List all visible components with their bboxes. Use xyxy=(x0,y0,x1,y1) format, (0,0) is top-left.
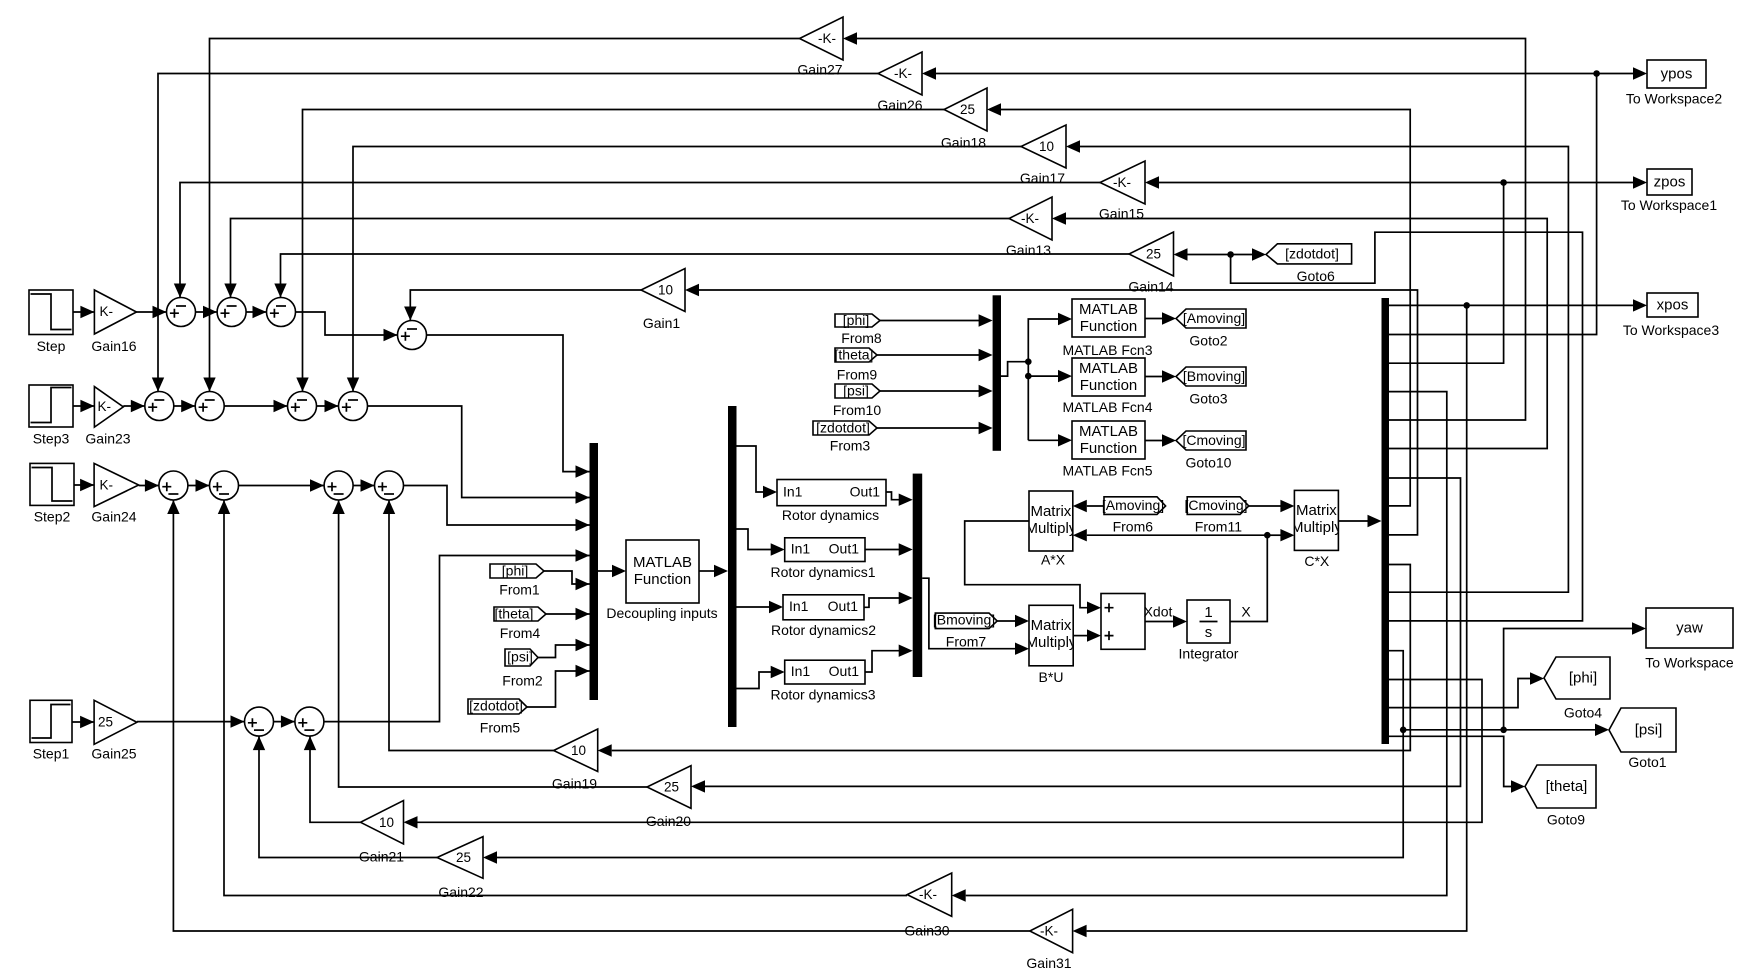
wire Gain20 output to Sum row3-3 bottom xyxy=(332,500,647,787)
sum Sum row1-4 xyxy=(398,321,427,350)
svg-text:X: X xyxy=(1241,604,1251,620)
wire Gain24 to Sum row3-1 xyxy=(139,479,159,491)
svg-text:Gain16: Gain16 xyxy=(91,338,136,354)
wire Demux2 stub9 down to Gain19 input xyxy=(598,565,1411,757)
step source Step xyxy=(29,290,73,354)
sum Sum row2-1 xyxy=(145,392,174,421)
from tag From3 zdotdot xyxy=(813,420,877,454)
svg-text:From4: From4 xyxy=(500,625,541,641)
sum Sum row3-1 xyxy=(159,471,188,500)
svg-text:Gain13: Gain13 xyxy=(1006,242,1051,258)
block MATLAB Fcn3 xyxy=(1063,299,1153,358)
step source Step1 xyxy=(30,700,72,761)
svg-text:Gain24: Gain24 xyxy=(91,509,136,525)
svg-text:In1: In1 xyxy=(791,663,811,679)
wire Gain1 output to Sum row1-4 top xyxy=(404,290,641,321)
wire Demux2 stub12 psi chain down xyxy=(483,651,1403,864)
wire From9 theta to Mux3 xyxy=(877,349,993,361)
from tag From7 Bmoving xyxy=(933,612,997,650)
svg-text:Rotor dynamics: Rotor dynamics xyxy=(782,507,879,523)
svg-text:Gain20: Gain20 xyxy=(646,813,691,829)
svg-text:Gain31: Gain31 xyxy=(1026,955,1071,968)
svg-text:[Bmoving]: [Bmoving] xyxy=(1183,368,1245,384)
svg-text:From1: From1 xyxy=(499,582,540,598)
svg-text:[psi]: [psi] xyxy=(843,383,869,399)
svg-text:In1: In1 xyxy=(791,541,811,557)
wire From10 psi to Mux3 xyxy=(880,385,993,397)
wire ypos node to ypos To Workspace2 xyxy=(1597,67,1647,79)
svg-text:Goto2: Goto2 xyxy=(1189,333,1227,349)
svg-text:Function: Function xyxy=(634,571,692,588)
subsystem Rotor dynamics2 xyxy=(771,595,876,638)
sum Sum row2-2 xyxy=(195,392,224,421)
gain Gain27 xyxy=(797,17,843,78)
svg-text:Goto1: Goto1 xyxy=(1628,754,1666,770)
goto tag Goto2 Amoving xyxy=(1176,309,1246,349)
wire Sum row4-1 to Sum row4-2 xyxy=(274,715,295,727)
wire Gain14 output to Sum row1-3 top xyxy=(274,254,1129,298)
svg-text:To Workspace3: To Workspace3 xyxy=(1623,322,1719,338)
wire Demux1 out4 to Rotor dynamics3 In1 xyxy=(737,666,785,689)
svg-text:MATLAB Fcn4: MATLAB Fcn4 xyxy=(1063,399,1153,415)
wire Gain21 output to Sum row4-2 bottom xyxy=(304,736,361,822)
svg-text:[Bmoving]: [Bmoving] xyxy=(933,612,995,628)
svg-text:Function: Function xyxy=(1080,377,1138,394)
wire Mux3 output jog to MATLAB Fcn inputs xyxy=(1001,313,1072,447)
svg-text:Multiply: Multiply xyxy=(1291,519,1342,536)
wire C*X output to Demux2 input xyxy=(1338,515,1381,527)
wire Gain31 output to Sum row3-1 bottom xyxy=(167,500,1030,931)
node X branch dot xyxy=(1264,532,1271,539)
svg-text:Gain21: Gain21 xyxy=(359,849,404,865)
block MATLAB Fcn4 xyxy=(1063,358,1153,415)
wire Demux2 stub7 up to Gain18 input xyxy=(987,103,1410,506)
svg-text:Gain25: Gain25 xyxy=(91,746,136,762)
node yaw branch dot xyxy=(1500,727,1507,734)
node psi branch dot xyxy=(1400,727,1407,734)
svg-text:Multiply: Multiply xyxy=(1026,634,1077,651)
wire Mux2 to B*U lower input xyxy=(922,578,1029,655)
svg-text:In1: In1 xyxy=(783,484,803,500)
svg-text:25: 25 xyxy=(960,102,975,117)
svg-text:From9: From9 xyxy=(837,367,878,383)
svg-text:MATLAB: MATLAB xyxy=(1079,423,1138,440)
node xpos branch dot xyxy=(1463,302,1470,309)
gain Gain19 xyxy=(552,729,598,792)
wire Rotor dynamics2 Out1 to Mux2 xyxy=(864,592,913,608)
wire MATLAB Fcn5 to Goto10 xyxy=(1145,434,1176,446)
wire Demux2 stub8 up to Gain1 input xyxy=(685,284,1418,535)
mux Mux2 xyxy=(913,474,923,677)
gain Gain16 xyxy=(91,290,136,354)
svg-text:Goto9: Goto9 xyxy=(1547,812,1585,828)
svg-text:-K-: -K- xyxy=(1021,211,1039,226)
svg-text:-K-: -K- xyxy=(818,31,836,46)
node zdotdot branch dot xyxy=(1227,251,1234,258)
wire Step1 to Gain25 xyxy=(72,716,94,728)
svg-text:MATLAB: MATLAB xyxy=(1079,301,1138,318)
svg-text:Goto6: Goto6 xyxy=(1297,268,1335,284)
gain Gain26 xyxy=(877,52,922,113)
block A*X Matrix Multiply xyxy=(1025,491,1076,568)
wire Sum row2-2 to Sum row2-3 xyxy=(224,400,287,412)
block Decoupling inputs MATLAB Function xyxy=(606,540,717,621)
svg-text:Step: Step xyxy=(37,338,66,354)
gain Gain17 xyxy=(1020,125,1066,186)
svg-text:Decoupling inputs: Decoupling inputs xyxy=(606,605,717,621)
goto tag Goto1 psi xyxy=(1609,708,1676,770)
wire From11 Cmoving to C*X upper input xyxy=(1249,500,1295,512)
svg-text:s: s xyxy=(1205,624,1213,641)
svg-text:To Workspace1: To Workspace1 xyxy=(1621,197,1717,213)
wire From5 zdotdot to Mux1 input8 xyxy=(527,665,590,707)
svg-text:25: 25 xyxy=(664,780,679,795)
mux Mux1 xyxy=(590,443,599,700)
wire Sum row2-1 to Sum row2-2 xyxy=(174,400,195,412)
svg-text:B*U: B*U xyxy=(1039,669,1064,685)
svg-text:MATLAB: MATLAB xyxy=(1079,360,1138,377)
svg-text:From6: From6 xyxy=(1113,519,1154,535)
wire Gain13 output to Sum row1-2 top xyxy=(224,219,1009,298)
from tag From2 psi xyxy=(502,649,543,689)
wire Demux2 stub13 down to Gain21 input xyxy=(404,680,1483,829)
svg-text:Gain26: Gain26 xyxy=(877,97,922,113)
svg-text:ypos: ypos xyxy=(1661,66,1693,83)
wire ypos node to Gain26 input xyxy=(922,67,1597,79)
to workspace yaw To Workspace xyxy=(1645,608,1734,671)
svg-text:zpos: zpos xyxy=(1654,174,1686,191)
svg-text:Xdot: Xdot xyxy=(1144,604,1173,620)
svg-text:[psi]: [psi] xyxy=(1635,722,1663,739)
gain Gain25 xyxy=(91,700,136,761)
wire Sum row3-3 to Sum row3-4 xyxy=(353,479,374,491)
gain Gain24 xyxy=(91,463,138,524)
block C*X Matrix Multiply xyxy=(1291,490,1342,569)
wire B*U to Sum block lower input xyxy=(1073,629,1101,641)
svg-text:yaw: yaw xyxy=(1676,620,1703,637)
wire Gain17 output to Sum row2-4 top xyxy=(347,147,1021,392)
wire Gain22 output to Sum row4-1 bottom xyxy=(253,736,437,857)
svg-text:C*X: C*X xyxy=(1304,553,1330,569)
wire psi node to Goto1 xyxy=(1403,724,1609,736)
gain Gain21 xyxy=(359,801,404,865)
from tag From4 theta xyxy=(494,606,546,642)
svg-text:From11: From11 xyxy=(1195,519,1242,535)
svg-text:From7: From7 xyxy=(946,634,987,650)
from tag From5 zdotdot xyxy=(468,698,527,736)
from tag From1 phi xyxy=(490,563,544,598)
wire Gain25 to Sum row4-1 xyxy=(137,715,245,727)
wire Demux1 out1 to Rotor dynamics In1 xyxy=(737,446,778,498)
wire Sum row4-2 to Mux1 input4 xyxy=(324,549,590,721)
svg-text:25: 25 xyxy=(98,715,113,730)
from tag From10 psi xyxy=(833,383,881,419)
step source Step3 xyxy=(29,385,73,447)
mux Mux3 xyxy=(993,295,1001,451)
svg-text:Goto3: Goto3 xyxy=(1189,391,1227,407)
wire Sum row1-4 to Mux1 input1 xyxy=(427,335,590,478)
svg-text:-K-: -K- xyxy=(919,887,937,902)
wire zpos node to zpos To Workspace1 xyxy=(1504,176,1647,188)
wire Sum row2-3 to Sum row2-4 xyxy=(317,400,339,412)
block MATLAB Fcn5 xyxy=(1063,421,1153,479)
wire Integrator output X up to node xyxy=(1230,535,1267,621)
svg-text:Step3: Step3 xyxy=(33,431,70,447)
gain Gain22 xyxy=(437,837,484,900)
wire From7 Bmoving to B*U upper input xyxy=(997,615,1029,627)
subsystem Rotor dynamics3 xyxy=(770,660,875,702)
svg-text:Goto4: Goto4 xyxy=(1564,705,1602,721)
node ypos branch dot xyxy=(1593,70,1600,77)
svg-text:Goto10: Goto10 xyxy=(1186,455,1232,471)
wire Demux2 stub14 to Goto4 phi xyxy=(1389,672,1544,707)
svg-text:Gain17: Gain17 xyxy=(1020,170,1065,186)
svg-text:10: 10 xyxy=(658,283,673,298)
svg-text:Step1: Step1 xyxy=(33,746,70,762)
wire From4 theta to Mux1 input6 xyxy=(546,608,590,620)
wire From6 Amoving to A*X upper input xyxy=(1073,500,1104,512)
gain Gain20 xyxy=(646,766,691,829)
svg-text:[psi]: [psi] xyxy=(507,649,533,665)
svg-text:[zdotdot]: [zdotdot] xyxy=(1285,246,1339,262)
wire Rotor dynamics Out1 to Mux2 xyxy=(886,492,913,506)
node zpos branch dot xyxy=(1500,179,1507,186)
to workspace zpos To Workspace1 xyxy=(1621,169,1717,213)
sum Sum row2-3 xyxy=(288,392,317,421)
demux Demux2 xyxy=(1382,298,1390,744)
wire X node to C*X lower input xyxy=(1267,529,1294,541)
svg-text:Out1: Out1 xyxy=(850,484,881,500)
svg-text:Gain18: Gain18 xyxy=(941,135,986,151)
svg-text:[theta]: [theta] xyxy=(835,347,874,363)
svg-text:From8: From8 xyxy=(841,330,882,346)
svg-text:10: 10 xyxy=(1039,139,1054,154)
goto tag Goto6 zdotdot xyxy=(1266,244,1352,284)
svg-text:Gain27: Gain27 xyxy=(797,62,842,78)
wire zdotdot node to Goto6 xyxy=(1231,248,1266,260)
wire Gain15 output to Sum row1-1 top xyxy=(174,183,1100,298)
wire Gain26 output to Sum row2-1 top xyxy=(152,74,878,392)
svg-text:In1: In1 xyxy=(789,598,809,614)
svg-text:[Amoving]: [Amoving] xyxy=(1102,497,1164,513)
wire Sum block to Integrator (Xdot) xyxy=(1145,615,1187,627)
svg-text:MATLAB Fcn5: MATLAB Fcn5 xyxy=(1063,463,1153,479)
svg-text:Out1: Out1 xyxy=(829,541,860,557)
wire Mux1 to Decoupling MATLAB Function xyxy=(598,565,626,577)
svg-text:[theta]: [theta] xyxy=(1546,778,1588,795)
wire Gain30 output to Sum row3-2 bottom xyxy=(218,500,907,896)
svg-text:From3: From3 xyxy=(830,438,871,454)
wire A*X output to Sum block upper input xyxy=(965,521,1101,614)
svg-text:Gain23: Gain23 xyxy=(85,431,130,447)
sum Sum row1-2 xyxy=(217,298,246,327)
goto tag Goto4 phi xyxy=(1544,657,1610,721)
wire Sum row3-1 to Sum row3-2 xyxy=(188,479,210,491)
svg-text:K-: K- xyxy=(100,478,114,493)
svg-text:From10: From10 xyxy=(833,402,881,418)
wire From2 psi to Mux1 input7 xyxy=(538,639,590,658)
wire Gain19 output to Sum row3-4 bottom xyxy=(383,500,554,751)
wire Demux2 stub15 to Goto9 theta xyxy=(1389,736,1525,792)
wire Demux1 out2 to Rotor dynamics1 In1 xyxy=(737,529,785,556)
svg-text:A*X: A*X xyxy=(1041,552,1066,568)
wire Decoupling MATLAB Function to Demux1 xyxy=(699,565,728,577)
svg-text:Matrix: Matrix xyxy=(1030,503,1071,520)
wire Sum row1-2 to Sum row1-3 xyxy=(246,306,267,318)
svg-text:[Cmoving]: [Cmoving] xyxy=(1182,432,1245,448)
wire Demux2 stub3 down to Gain30 input xyxy=(952,392,1447,902)
block B*U Matrix Multiply xyxy=(1026,605,1077,685)
svg-text:To Workspace: To Workspace xyxy=(1645,655,1734,671)
goto tag Goto3 Bmoving xyxy=(1176,367,1246,407)
svg-text:Multiply: Multiply xyxy=(1025,520,1076,537)
svg-text:Rotor dynamics2: Rotor dynamics2 xyxy=(771,622,876,638)
svg-text:Gain1: Gain1 xyxy=(643,315,681,331)
svg-text:Out1: Out1 xyxy=(828,598,859,614)
wire Gain18 output to Sum row2-3 top xyxy=(296,110,944,392)
svg-text:Function: Function xyxy=(1080,440,1138,457)
gain Gain15 xyxy=(1099,161,1145,222)
wire Step3 to Gain23 xyxy=(73,400,94,412)
svg-text:1: 1 xyxy=(1204,604,1212,621)
wire Gain23 to Sum row2-1 xyxy=(123,400,145,412)
wire From8 phi to Mux3 xyxy=(880,314,993,326)
svg-text:Matrix: Matrix xyxy=(1296,502,1337,519)
svg-text:Out1: Out1 xyxy=(829,663,860,679)
svg-text:10: 10 xyxy=(379,815,394,830)
gain Gain1 xyxy=(641,269,685,332)
node Mux3 jog dot lower xyxy=(1025,373,1032,380)
svg-text:Step2: Step2 xyxy=(34,509,71,525)
step source Step2 xyxy=(30,463,74,524)
wire Sum row1-1 to Sum row1-2 xyxy=(196,306,218,318)
sum Sum row2-4 xyxy=(339,392,368,421)
from tag From8 phi xyxy=(835,312,882,346)
wire Step2 to Gain24 xyxy=(74,479,94,491)
svg-text:-K-: -K- xyxy=(1113,175,1131,190)
gain Gain13 xyxy=(1006,197,1052,258)
svg-text:25: 25 xyxy=(456,850,471,865)
wire From1 phi to Mux1 input5 xyxy=(544,571,590,590)
wire Sum row1-3 to Sum row1-4 jog xyxy=(296,312,398,341)
demux Demux1 xyxy=(728,406,737,727)
gain Gain30 xyxy=(904,873,951,939)
svg-text:[phi]: [phi] xyxy=(1569,670,1597,687)
svg-text:10: 10 xyxy=(571,743,586,758)
wire Demux2 stub5 up to Gain13 input xyxy=(1052,212,1547,448)
wire Rotor dynamics3 Out1 to Mux2 xyxy=(865,645,913,673)
wire Demux2 stub6 down to Gain20 input xyxy=(691,478,1461,793)
svg-text:[zdotdot]: [zdotdot] xyxy=(469,698,523,714)
to workspace xpos To Workspace3 xyxy=(1623,293,1719,338)
wire xpos node down to Gain31 input xyxy=(1073,305,1467,937)
wire Demux2 stub4 up to Gain27 input xyxy=(843,32,1526,420)
from tag From6 Amoving xyxy=(1102,497,1166,535)
svg-text:[Amoving]: [Amoving] xyxy=(1183,310,1245,326)
subsystem Rotor dynamics1 xyxy=(770,538,875,580)
sum Sum block rectangular xyxy=(1101,594,1145,650)
svg-text:K-: K- xyxy=(98,399,112,414)
wire Sum row2-4 to Mux1 input2 xyxy=(368,406,590,504)
svg-text:-K-: -K- xyxy=(894,66,912,81)
svg-text:Gain14: Gain14 xyxy=(1128,279,1173,295)
svg-text:Rotor dynamics3: Rotor dynamics3 xyxy=(770,687,875,703)
svg-text:xpos: xpos xyxy=(1657,297,1689,314)
gain Gain31 xyxy=(1026,909,1072,968)
wire Gain27 output to Sum row2-2 top xyxy=(203,39,799,392)
wire Demux2 stub1 up to ypos line xyxy=(1389,74,1597,335)
block Integrator xyxy=(1179,600,1239,662)
wire Demux2 stub10 up to Gain17 input xyxy=(1066,140,1568,592)
goto tag Goto9 theta xyxy=(1525,765,1596,828)
from tag From11 Cmoving xyxy=(1184,497,1248,535)
wire Gain16 to Sum row1-1 xyxy=(137,306,167,318)
subsystem Rotor dynamics xyxy=(777,480,886,524)
wire Rotor dynamics1 Out1 to Mux2 xyxy=(865,543,913,555)
gain Gain18 xyxy=(941,88,987,151)
svg-text:Gain15: Gain15 xyxy=(1099,206,1144,222)
wire Demux2 stub2 up to zpos line xyxy=(1389,183,1504,364)
svg-text:[phi]: [phi] xyxy=(843,312,869,328)
svg-text:MATLAB: MATLAB xyxy=(633,554,692,571)
wire MATLAB Fcn3 to Goto2 xyxy=(1145,312,1176,324)
gain Gain23 xyxy=(85,387,130,447)
sum Sum row3-2 xyxy=(210,471,239,500)
svg-text:Rotor dynamics1: Rotor dynamics1 xyxy=(770,564,875,580)
wire Demux2 stub0 to xpos To Workspace3 xyxy=(1389,299,1647,311)
wire Demux1 out3 to Rotor dynamics2 In1 xyxy=(737,601,784,613)
svg-text:Function: Function xyxy=(1080,318,1138,335)
wire zpos node to Gain15 input xyxy=(1145,176,1504,188)
svg-text:Matrix: Matrix xyxy=(1031,617,1072,634)
svg-text:To Workspace2: To Workspace2 xyxy=(1626,91,1722,107)
wire Sum row3-4 to Mux1 input3 xyxy=(404,486,590,532)
svg-text:[Cmoving]: [Cmoving] xyxy=(1184,497,1247,513)
svg-text:[theta]: [theta] xyxy=(495,606,534,622)
wire Step to Gain16 xyxy=(73,306,94,318)
svg-text:Gain22: Gain22 xyxy=(438,884,483,900)
wire MATLAB Fcn4 to Goto3 xyxy=(1145,370,1176,382)
svg-text:Integrator: Integrator xyxy=(1179,646,1239,662)
svg-text:Gain30: Gain30 xyxy=(904,923,949,939)
svg-text:From5: From5 xyxy=(480,720,521,736)
sum Sum row1-1 xyxy=(167,298,196,327)
sum Sum row3-4 xyxy=(375,471,404,500)
wire yaw node up to yaw To Workspace xyxy=(1504,622,1646,730)
gain Gain14 xyxy=(1128,232,1173,295)
sum Sum row3-3 xyxy=(324,471,353,500)
svg-text:From2: From2 xyxy=(502,673,543,689)
sum Sum row4-1 xyxy=(245,707,274,736)
goto tag Goto10 Cmoving xyxy=(1176,431,1246,471)
wire zdotdot node to Gain14 input xyxy=(1174,248,1231,260)
svg-text:K-: K- xyxy=(100,304,114,319)
wire Sum row3-2 to Sum row3-3 xyxy=(239,479,325,491)
svg-text:[phi]: [phi] xyxy=(502,563,528,579)
to workspace ypos To Workspace2 xyxy=(1626,60,1722,107)
wire X node to A*X lower input xyxy=(1073,529,1268,541)
wire Demux2 stub11 zdotdot chain to Gain14 and Goto6 xyxy=(1231,232,1583,621)
sum Sum row4-2 xyxy=(295,707,324,736)
svg-text:-K-: -K- xyxy=(1040,924,1058,939)
node Mux3 jog dot upper xyxy=(1025,358,1032,365)
svg-text:MATLAB Fcn3: MATLAB Fcn3 xyxy=(1063,342,1153,358)
sum Sum row1-3 xyxy=(267,298,296,327)
wire From3 zdotdot to Mux3 xyxy=(877,422,993,434)
svg-text:[zdotdot]: [zdotdot] xyxy=(816,420,870,436)
svg-text:25: 25 xyxy=(1146,247,1161,262)
from tag From9 theta xyxy=(835,347,878,383)
